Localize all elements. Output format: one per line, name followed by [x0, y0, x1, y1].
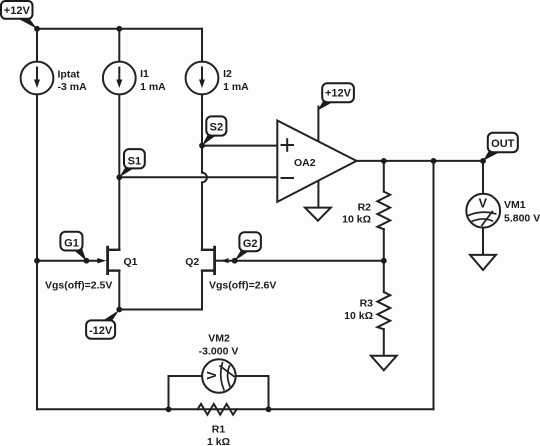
svg-text:G1: G1 [64, 238, 79, 250]
wire Q2 source down [201, 271, 203, 310]
svg-text:Vgs(off)=2.5V: Vgs(off)=2.5V [45, 280, 112, 292]
svg-text:1 mA: 1 mA [223, 81, 249, 93]
junction node dots [34, 26, 486, 412]
wire bottom rail [37, 408, 434, 410]
node G1 rail junction [34, 258, 40, 264]
wire op-amp ground stem [317, 181, 319, 208]
svg-text:I1: I1 [140, 68, 149, 80]
wire I2 branch upper (to S2 node) [201, 29, 203, 173]
ground (VM1) [470, 255, 496, 270]
svg-text:OUT: OUT [491, 138, 515, 150]
wire VM1 branch [482, 161, 484, 255]
svg-text:+12V: +12V [4, 5, 31, 17]
net label +12V (op-amp) [318, 83, 354, 110]
net label -12V [86, 310, 119, 339]
current source I1 [103, 62, 136, 95]
wire I2 branch lower / Q2 drain [201, 182, 203, 249]
wire VM2 right lead [236, 376, 269, 409]
voltmeter VM1 [466, 194, 500, 228]
svg-text:R2: R2 [358, 202, 372, 214]
ground (R3) [371, 356, 397, 371]
node VM2 right [266, 406, 272, 412]
wire op-amp output [357, 160, 484, 162]
svg-text:Iptat: Iptat [58, 68, 81, 80]
wire left rail [36, 29, 38, 410]
current source Iptat [21, 62, 54, 95]
node top-left +12V [34, 26, 40, 32]
node feedback top [431, 158, 437, 164]
net label OUT [483, 133, 518, 161]
net label S1 [119, 149, 145, 177]
net label G2 [235, 232, 261, 261]
svg-text:10 kΩ: 10 kΩ [342, 214, 371, 226]
transistor Q2 [202, 247, 229, 274]
wire top rail [37, 28, 202, 30]
svg-text:R1: R1 [212, 424, 226, 436]
svg-text:S1: S1 [128, 155, 141, 167]
wire VM2 left lead [169, 376, 203, 409]
ground (op-amp) [305, 208, 331, 221]
svg-text:Vgs(off)=2.6V: Vgs(off)=2.6V [209, 280, 276, 292]
net label G1 [60, 232, 86, 261]
svg-text:-3 mA: -3 mA [58, 81, 88, 93]
wire feedback to bottom [433, 161, 435, 409]
svg-text:R3: R3 [360, 298, 374, 310]
op-amp OA2 [277, 121, 356, 202]
wire op-amp supply [317, 107, 319, 140]
wire I1 branch / Q1 drain [118, 29, 120, 250]
net label +12V (top left) [1, 1, 37, 29]
svg-text:VM2: VM2 [208, 333, 230, 345]
transistor Q1 [97, 247, 119, 274]
node S2 [199, 143, 205, 149]
wire R2 bottom lead [383, 229, 385, 261]
node R2 top [381, 158, 387, 164]
wire Q1 source down [118, 271, 120, 310]
node I1 top [116, 26, 122, 32]
wire R3 bottom lead [383, 329, 385, 356]
svg-text:S2: S2 [210, 121, 223, 133]
voltmeter VM2 [202, 359, 236, 393]
resistor R3 [377, 292, 390, 329]
wire common source [119, 309, 202, 311]
resistor R2 [377, 192, 390, 230]
wire Q1 gate [37, 260, 99, 262]
svg-text:VM1: VM1 [504, 199, 526, 211]
svg-text:1 kΩ: 1 kΩ [207, 436, 230, 446]
node G1 [84, 258, 90, 264]
node S1 [116, 174, 122, 180]
wire R2 top lead [383, 161, 385, 192]
svg-text:I2: I2 [223, 68, 232, 80]
svg-text:-3.000 V: -3.000 V [199, 346, 239, 358]
wire S2 to op-amp + input [202, 145, 277, 147]
wire Q2 gate to feedback divider [224, 260, 384, 262]
node OUT [480, 158, 486, 164]
svg-text:V: V [479, 196, 488, 210]
svg-text:G2: G2 [243, 238, 258, 250]
svg-text:V: V [205, 371, 219, 380]
node VM2 left [166, 406, 172, 412]
node -12V / common source [116, 307, 122, 313]
net label S2 [202, 116, 226, 145]
node R2/R3 junction [381, 258, 387, 264]
svg-text:10 kΩ: 10 kΩ [344, 310, 373, 322]
svg-text:-12V: -12V [89, 325, 113, 337]
wire S1 to op-amp - input [119, 176, 277, 178]
svg-text:1 mA: 1 mA [140, 81, 166, 93]
current source I2 [186, 62, 219, 95]
svg-text:5.800 V: 5.800 V [504, 213, 540, 225]
svg-text:+12V: +12V [325, 88, 352, 100]
node G2 [232, 258, 238, 264]
wire hop over S1 wire [202, 173, 207, 183]
svg-text:Q1: Q1 [124, 256, 138, 268]
resistor R1 [198, 404, 237, 415]
wire R3 top lead [383, 261, 385, 292]
svg-text:Q2: Q2 [185, 256, 199, 268]
svg-text:OA2: OA2 [294, 157, 316, 169]
